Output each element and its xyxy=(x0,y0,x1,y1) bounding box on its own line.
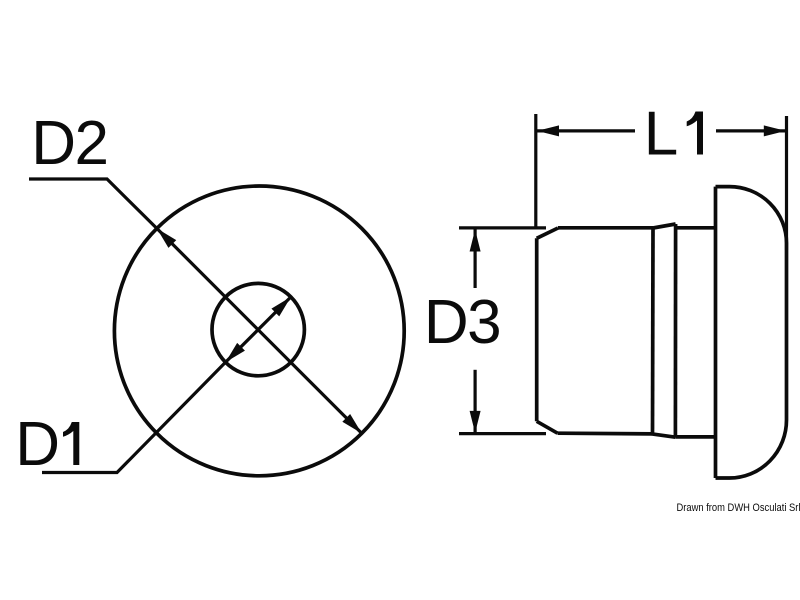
arrowhead L1 right xyxy=(764,125,786,136)
body top line xyxy=(558,226,653,230)
svg-text:L: L xyxy=(644,100,678,169)
dimension D2 leader and diameter line xyxy=(29,179,362,433)
body bottom chamfer xyxy=(537,421,558,433)
arrowhead D3 top xyxy=(470,230,481,252)
rib bottom edge xyxy=(652,434,675,437)
dimension L1 line left segment xyxy=(537,129,635,132)
dimension L1 right extension line xyxy=(785,116,788,250)
dimension D3 bottom extension line xyxy=(459,432,546,435)
svg-text:D: D xyxy=(15,410,60,479)
dimension L1 left extension line xyxy=(534,114,537,228)
dimension D3 top extension line xyxy=(459,226,546,229)
dimension L1 line right segment xyxy=(716,129,786,132)
neck bottom line xyxy=(675,435,715,439)
arrowhead D1 upper-right xyxy=(271,297,290,316)
svg-text:D3: D3 xyxy=(424,288,500,357)
arrowhead D3 bottom xyxy=(470,411,481,433)
dome cap outline xyxy=(716,187,787,478)
rib top edge xyxy=(653,224,676,228)
dimension D3 line bottom segment xyxy=(474,370,477,432)
front view outer circle (D2) xyxy=(114,186,404,476)
dimension D3 line top segment xyxy=(474,230,477,289)
arrowhead L1 left xyxy=(537,125,559,136)
body top chamfer xyxy=(537,228,558,238)
svg-text:Drawn from DWH Osculati Srl: Drawn from DWH Osculati Srl xyxy=(677,502,800,514)
arrowhead D2 lower-right xyxy=(342,414,361,433)
dome cap left edge xyxy=(714,187,718,478)
rib left edge xyxy=(651,228,655,434)
body bottom line xyxy=(558,431,653,435)
arrowhead D2 upper-left xyxy=(157,228,176,247)
arrowhead D1 lower-left xyxy=(226,343,245,362)
side view body outline xyxy=(537,187,787,478)
body left face xyxy=(535,238,539,421)
neck top line xyxy=(676,226,716,230)
svg-text:D2: D2 xyxy=(31,109,107,178)
rib right edge xyxy=(674,224,678,437)
dimension D1 leader and diameter line xyxy=(42,297,291,473)
front view inner hole circle (D1) xyxy=(212,283,304,375)
